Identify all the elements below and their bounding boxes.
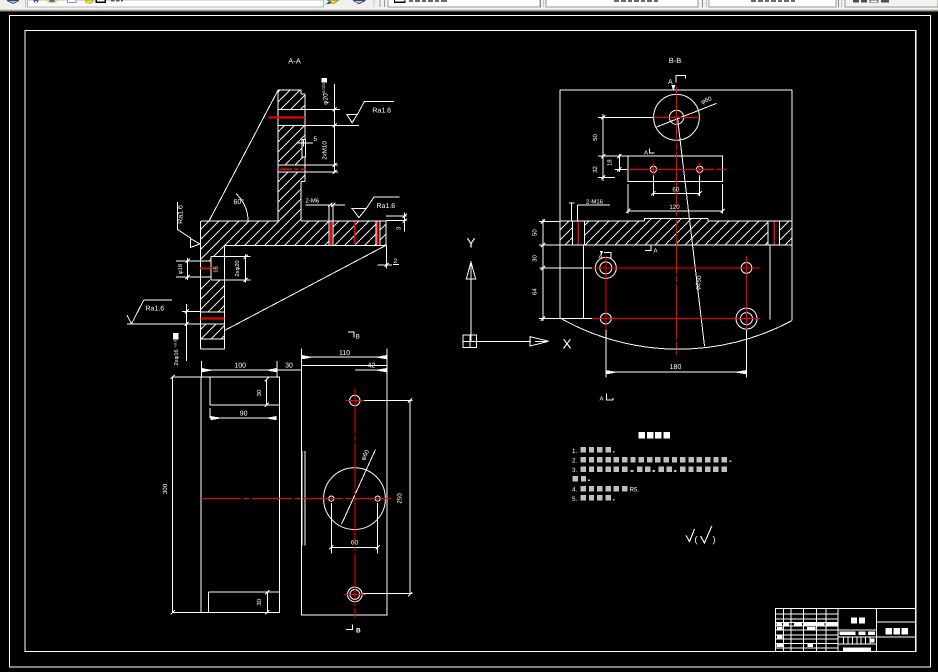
phi20 notch top [211, 256, 251, 258]
linetype combobox [709, 0, 836, 7]
column band line 1 [278, 109, 340, 111]
svg-text:φ20: φ20 [323, 93, 330, 105]
dim 90 ext [209, 408, 211, 418]
svg-text:32: 32 [592, 166, 599, 173]
yellow padlock fragment [85, 0, 94, 3]
phi18 hole top [176, 260, 211, 262]
red circle horizontal [653, 116, 699, 118]
red phi16 hole line [201, 317, 225, 319]
hatch column mid block [278, 125, 305, 165]
set-layer-current icon (yellow diamond + arrow) [327, 0, 339, 4]
body left edge [200, 221, 202, 349]
hole band line 2 / ext [127, 323, 224, 325]
right rect outline [301, 366, 387, 615]
svg-text:A: A [654, 248, 658, 255]
svg-text:2: 2 [394, 258, 398, 265]
Ra1.6 symbol top-right [347, 102, 394, 123]
dim 250 ext top [362, 400, 413, 402]
small circle right [375, 496, 380, 501]
Ra1.6 symbol left rotated [178, 202, 201, 248]
big circle [324, 468, 386, 530]
ext line 177 [598, 176, 615, 178]
divider pair [702, 0, 703, 8]
middle row blobs [840, 632, 876, 652]
svg-text:A-A: A-A [288, 57, 301, 66]
Ra1.6 symbol flange [352, 197, 400, 218]
dim 60 ext [331, 503, 377, 554]
left chain ext row1 [539, 267, 592, 269]
svg-text:2xφ20: 2xφ20 [234, 260, 241, 276]
hatch lower column low [201, 324, 225, 339]
dim 90 line [212, 417, 276, 419]
svg-text:3.: 3. [572, 467, 578, 474]
svg-text:120: 120 [669, 204, 680, 211]
hole LR outer [736, 308, 757, 329]
middle top text blobs [851, 618, 865, 624]
ext line plate top [598, 155, 628, 157]
UCS icon [463, 236, 572, 352]
red phi18 thread line [200, 267, 214, 269]
bottom small circle [350, 590, 360, 600]
dim 2 lower right [377, 245, 392, 268]
red hole row 1 [592, 267, 761, 269]
60 deg slant line [209, 90, 278, 221]
svg-text:X: X [562, 337, 571, 352]
flange top edge left [201, 220, 278, 222]
svg-text:180: 180 [670, 364, 682, 371]
layer combobox [388, 0, 540, 7]
lower column right edge [223, 245, 225, 349]
dim phi18 vertical [186, 258, 190, 280]
black color swatch [96, 0, 105, 2]
svg-text:+0.021: +0.021 [321, 82, 326, 95]
red long horizontal centerline [201, 498, 391, 500]
hatch column top block [278, 90, 305, 110]
B mark bottom [346, 625, 352, 630]
roughness check mark 2 [701, 526, 712, 543]
bottom arc [560, 318, 792, 349]
technical notes [572, 432, 731, 545]
svg-text:Ra1.6: Ra1.6 [178, 205, 185, 224]
svg-text:A: A [668, 79, 673, 86]
bottom small circle outer [348, 587, 363, 602]
top circle inner [669, 110, 683, 124]
svg-text:A: A [644, 150, 648, 157]
flange top edge right [301, 220, 386, 222]
tick [333, 107, 337, 174]
main rect left edge [559, 90, 561, 318]
lock square icon [68, 0, 77, 3]
red flange hole line 3 [377, 221, 379, 245]
dim 300 ext [173, 377, 201, 612]
red plate hole verticals [653, 163, 699, 176]
dim 60 ext [653, 173, 699, 197]
M10 hole rect [302, 140, 306, 157]
svg-text:60°: 60° [234, 199, 245, 206]
dim 100 ext [201, 361, 277, 377]
slot lines [302, 451, 305, 546]
red centerline vertical [354, 389, 356, 618]
svg-text:18: 18 [607, 159, 614, 166]
red thread line top [269, 116, 306, 118]
svg-text:2xM10: 2xM10 [322, 141, 329, 160]
dim 5 leader [297, 140, 313, 147]
hatch column low block [278, 172, 305, 221]
svg-text:60: 60 [351, 539, 359, 546]
dim 30 bottom vertical [265, 590, 269, 614]
layers toolbar icon (blue diamond) [7, 1, 19, 4]
column band line 3 [278, 164, 338, 166]
dim 300 line [171, 375, 175, 615]
left rect top notch horizontal [210, 404, 279, 406]
svg-text:B: B [356, 628, 361, 635]
section mark A below band bracket [604, 252, 611, 258]
divider pair [540, 0, 541, 8]
svg-text:A: A [599, 254, 603, 261]
dim 30 vertical [265, 377, 269, 407]
column band line 2 [278, 124, 359, 126]
band top edge [560, 218, 792, 221]
title block [776, 609, 916, 652]
svg-text:φ18: φ18 [177, 264, 184, 274]
phi20 notch left [210, 257, 212, 280]
dim 180 line [607, 371, 745, 373]
X axis arrow [530, 337, 549, 346]
middle small boxes [844, 637, 870, 644]
phi60 oblique leader [342, 450, 376, 525]
divider [374, 0, 375, 7]
BOTTOM LEFT VIEW [162, 332, 413, 635]
2-M6 underline and leader [306, 203, 346, 221]
foot top line [201, 338, 225, 340]
svg-text:1.: 1. [572, 448, 578, 455]
2-M16 leader [569, 203, 610, 222]
hole LL [600, 313, 611, 324]
left ext line [182, 310, 201, 312]
column right step back [301, 181, 305, 183]
Y axis line [470, 279, 472, 341]
hole UR [741, 263, 752, 274]
hatch lower column mid [201, 280, 225, 312]
hole LR inner [741, 313, 753, 325]
dim 110 ext [301, 349, 387, 366]
plate hole left [650, 166, 656, 172]
lower body edge right [769, 245, 771, 319]
main rect right edge [791, 90, 793, 320]
dim 2xphi20 vertical [244, 254, 248, 283]
plate hole right [697, 166, 703, 172]
column right edge upper [304, 94, 306, 182]
middle horizontals [838, 630, 877, 644]
origin box [463, 335, 477, 348]
dim 250 ext bottom [363, 592, 412, 594]
svg-text:Ra1.6: Ra1.6 [372, 108, 391, 115]
section mark A plate-top [649, 149, 654, 153]
hole band line [201, 311, 225, 313]
red band line right [773, 222, 775, 245]
main rect top edge [560, 89, 792, 91]
svg-text:(: ( [695, 535, 698, 545]
svg-text:30: 30 [285, 362, 293, 369]
svg-text:Y: Y [466, 236, 475, 251]
band blank strip right [769, 222, 780, 245]
phi20 notch bottom [211, 279, 251, 281]
band bottom edge [560, 244, 792, 246]
svg-text:64: 64 [532, 288, 539, 295]
hatch lower column upper [201, 245, 225, 260]
small circle left [329, 496, 334, 501]
angle arc [236, 194, 248, 221]
divider [25, 0, 26, 8]
hatch band [560, 218, 792, 245]
red plate hole row [628, 168, 727, 170]
phi18 hole bottom [176, 276, 211, 278]
layers icon 2 (blue diamond) [353, 1, 366, 4]
column left edge [277, 90, 279, 221]
SECTION B-B [532, 56, 793, 403]
svg-text:Ra1.6: Ra1.6 [377, 203, 396, 210]
svg-text:5: 5 [314, 136, 318, 143]
title block outline [776, 609, 916, 652]
dim line 2xM10 vertical [334, 84, 336, 173]
foot bottom line [201, 348, 225, 350]
band blank strip left [573, 222, 584, 245]
dim 60 line [329, 545, 380, 549]
origin box cross [463, 335, 477, 348]
lineweight combobox with CJK fragment [845, 0, 938, 7]
column right edge lower [300, 182, 302, 221]
svg-text:30: 30 [256, 598, 263, 605]
dim 100 line [203, 369, 276, 371]
top circle [654, 94, 700, 140]
red flange hole line 2 [354, 221, 356, 245]
dim 120 line [626, 209, 725, 213]
svg-text:50: 50 [592, 134, 599, 141]
dim 110 line [303, 356, 386, 358]
svg-text:R5.: R5. [630, 486, 640, 493]
hole UL inner [600, 262, 612, 274]
flange right edge [385, 221, 387, 246]
section mark A mid [645, 246, 651, 251]
svg-text:2.: 2. [572, 457, 578, 464]
red cross bottom circle [344, 593, 366, 595]
left grid verticals [784, 609, 826, 652]
left grid text blobs [776, 623, 837, 647]
right horizontals [877, 622, 916, 637]
svg-text:B-B: B-B [669, 56, 682, 65]
svg-text:30: 30 [532, 255, 539, 262]
hatch flange band [201, 221, 386, 246]
svg-text:60: 60 [672, 187, 679, 194]
notes title (CJK blocks) [639, 432, 671, 439]
section mark A bottom bracket [606, 394, 613, 401]
text fragment dashes [111, 0, 114, 1]
svg-text:42: 42 [368, 362, 376, 369]
main verticals [838, 609, 877, 652]
dim 3 right [386, 213, 407, 232]
svg-text:Ra1.6: Ra1.6 [146, 306, 165, 313]
dim 18 [617, 154, 621, 172]
lower body edge left [583, 245, 585, 318]
left rect top notch vertical [209, 377, 211, 405]
left rect bottom notch horizontal [209, 591, 280, 593]
svg-text:): ) [713, 535, 716, 545]
ext line circle center [598, 116, 654, 118]
dim 30 gap line [277, 369, 301, 371]
left chain line [541, 219, 545, 321]
color combobox [546, 0, 698, 7]
left chain ext band bottom [539, 244, 560, 246]
ext line hole row [614, 168, 628, 170]
red flange hole line 1 [330, 221, 332, 245]
column top edge [278, 89, 301, 91]
note line 4 [573, 476, 590, 482]
right cell CJK text blobs [886, 628, 908, 634]
svg-text:250: 250 [397, 493, 404, 504]
svg-text:+0.021: +0.021 [174, 336, 178, 348]
dim 250 line [408, 398, 412, 596]
left chain ext row2 [539, 318, 592, 320]
red hole row 2 [592, 318, 761, 320]
dim 180 ext [606, 330, 747, 377]
lightbulb icon fragment [34, 0, 39, 3]
svg-text:16: 16 [213, 266, 220, 272]
svg-text:30: 30 [256, 389, 263, 396]
label phi20 tol square [322, 78, 328, 83]
toolbar background [0, 0, 938, 8]
flange bottom edge [224, 244, 385, 246]
svg-text:50: 50 [532, 229, 539, 236]
Y axis arrow [466, 262, 475, 279]
svg-text:2-M16: 2-M16 [586, 199, 604, 206]
divider pair [838, 0, 839, 8]
phi60 leader [657, 103, 717, 127]
left rect bottom notch vertical [208, 592, 210, 612]
svg-text:100: 100 [234, 362, 246, 369]
Ra1.6 symbol bottom-left [127, 300, 172, 324]
flange hole white lines [329, 221, 380, 246]
dim chain 50-32 [601, 114, 605, 181]
svg-text:2-M6: 2-M6 [306, 198, 320, 205]
sun icon fragment [46, 0, 58, 3]
roughness check mark 1 [686, 529, 695, 542]
left dim vertical [185, 304, 189, 361]
long diagonal to flange [225, 245, 386, 330]
red band line left [577, 222, 579, 245]
svg-text:300: 300 [162, 483, 169, 494]
dim 60 line [651, 191, 702, 195]
TOOLBAR [0, 0, 938, 11]
hole UL outer [595, 257, 616, 278]
B mark top [348, 332, 354, 338]
dim 42 line [355, 369, 386, 371]
label 2xphi16 square [173, 333, 179, 339]
plate rect [628, 156, 722, 181]
column band line 4 [278, 171, 338, 173]
svg-text:5.: 5. [572, 496, 578, 503]
svg-text:4.: 4. [572, 487, 578, 494]
column top-right step [301, 90, 305, 94]
red hole verticals [606, 256, 747, 331]
dim 120 ext [628, 184, 722, 214]
left chain ext band top [539, 221, 560, 223]
svg-text:110: 110 [339, 350, 350, 357]
svg-text:2xφ16: 2xφ16 [173, 349, 180, 365]
band strip lines [572, 221, 779, 245]
red centerline vertical [676, 87, 678, 355]
left rect outline [201, 377, 280, 612]
flange hole blank strips [329, 221, 332, 245]
X axis line [477, 340, 532, 342]
svg-text:A: A [600, 396, 604, 403]
left grid horizontals [776, 614, 838, 648]
svg-text:90: 90 [240, 411, 248, 418]
top small circle [350, 395, 360, 405]
svg-text:B: B [356, 334, 360, 341]
red dashed line [278, 168, 305, 170]
phi250 slant line [678, 118, 705, 346]
SECTION A-A [127, 57, 407, 366]
red cross top circle [346, 400, 365, 402]
